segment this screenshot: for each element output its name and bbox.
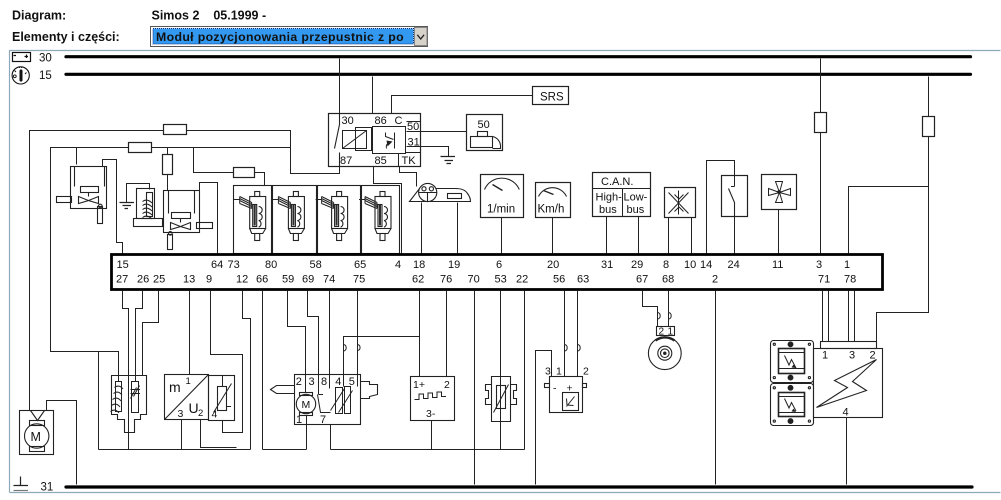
svg-text:6: 6 — [496, 259, 502, 271]
wire AC box to ECU pin 8 — [668, 218, 670, 254]
air conditioning switch box — [665, 188, 696, 218]
engine speed sender G28 connector — [657, 327, 675, 336]
wire CAN high to ECU pin 31 — [606, 217, 608, 254]
svg-text:15: 15 — [117, 259, 129, 271]
svg-text:1: 1 — [668, 327, 674, 338]
fuse on injector rail — [234, 168, 255, 178]
combo box dropdown button — [415, 28, 428, 46]
wire ECU pin 70 down — [474, 291, 476, 450]
svg-text:31: 31 — [41, 482, 54, 494]
positioner potentiometer 1 — [331, 388, 345, 414]
throttle positioner motor circle — [419, 183, 438, 202]
wire ECU pin 2 to ground bus — [715, 291, 717, 485]
wire bus15 through fuse down right side to ignition module — [877, 77, 929, 343]
injector frame 2 — [273, 186, 317, 254]
wire AC box to ECU pin 10 — [691, 218, 693, 254]
ground symbol 31 bottom left — [14, 477, 29, 491]
svg-text:1: 1 — [186, 376, 191, 387]
ground rail right section with drop to bus 31 — [331, 450, 475, 485]
wire ECU pin 25 to lambda sensor right — [143, 291, 159, 376]
wire relay pin TK to throttle positioner — [400, 167, 417, 187]
ground rail under coolant sensor — [475, 449, 525, 451]
wire CAN low to ECU pin 29 — [638, 217, 640, 254]
svg-text:2: 2 — [870, 350, 876, 362]
fuse on pump feed — [164, 125, 187, 135]
bus 15 — [66, 73, 971, 76]
riser rail to positioner motor pin 1 — [306, 417, 308, 450]
combo box selection highlight — [153, 29, 414, 45]
ECU engine control module connector box — [112, 255, 883, 290]
wire speedometer to ECU pin 20 — [552, 218, 554, 254]
svg-text:1: 1 — [844, 259, 850, 271]
svg-text:TK: TK — [402, 155, 417, 167]
svg-text:-: - — [553, 383, 557, 395]
wire bus30 down to relay pin 30 — [339, 59, 341, 114]
svg-text:19: 19 — [448, 259, 460, 271]
svg-text:68: 68 — [662, 274, 674, 286]
lambda sensor element — [131, 382, 141, 413]
svg-text:Diagram:: Diagram: — [12, 9, 66, 23]
svg-text:Km/h: Km/h — [538, 204, 565, 216]
svg-text:63: 63 — [577, 274, 589, 286]
wire ECU pin 53 through coolant sensor — [500, 291, 502, 450]
svg-text:75: 75 — [353, 274, 365, 286]
solenoid valve N80 (canister purge) — [57, 167, 107, 224]
svg-text:bus: bus — [627, 204, 645, 216]
positioner motor pin wire — [306, 416, 308, 450]
ground symbol at relay pin 31 — [441, 157, 456, 164]
svg-text:M: M — [31, 430, 41, 444]
fuse on valve supply — [129, 143, 152, 153]
svg-text:C: C — [395, 115, 403, 127]
snowflake symbol — [669, 191, 689, 215]
svg-text:3-: 3- — [426, 408, 436, 420]
wire bus15 down to relay pin 86 — [372, 77, 374, 114]
combo box frame — [151, 27, 428, 47]
wire tachometer to ECU pin 6 — [501, 218, 503, 254]
wire fuel pump to ground bus — [47, 401, 77, 485]
wire positioner pin 7 to ground rail — [330, 425, 332, 450]
fan box — [762, 175, 797, 210]
wire ECU pin 66 down to motor return rail — [262, 291, 264, 450]
svg-text:50: 50 — [407, 121, 419, 133]
air mass meter G70 box — [165, 375, 209, 420]
CAN bus box — [593, 173, 652, 217]
ignition coil pack 2 — [771, 384, 814, 426]
svg-text:2: 2 — [583, 366, 589, 378]
wire ECU pin 56 to sensor pin 1 — [564, 291, 566, 377]
wire ECU pin 22 down — [524, 291, 526, 450]
svg-text:22: 22 — [516, 274, 528, 286]
svg-text:12: 12 — [236, 274, 248, 286]
wire ECU pin 12 to ground rail — [243, 291, 251, 450]
svg-text:76: 76 — [440, 274, 452, 286]
tachometer gauge 1/min — [481, 175, 524, 218]
wire ECU pin 9 loop to intake temp sensor — [211, 291, 243, 433]
fan blades symbol — [769, 182, 791, 203]
wire bus30 to ECU pin 3 through fuse — [820, 59, 822, 254]
switch contact — [729, 187, 735, 217]
svg-text:1: 1 — [822, 350, 828, 362]
fuse on right-side bus15 feed — [923, 117, 935, 137]
svg-text:2: 2 — [659, 327, 665, 338]
starter box terminal 50 — [467, 115, 503, 151]
fuel pump motor box — [20, 411, 54, 455]
wire ECU pin 71 twin lead to ignition module — [823, 291, 829, 342]
lambda heater element — [111, 382, 124, 414]
starter motor icon — [471, 132, 501, 149]
svg-text:85: 85 — [375, 155, 387, 167]
wire throttle unit to ECU pin 19 — [457, 203, 459, 254]
svg-text:C.A.N.: C.A.N. — [601, 176, 633, 188]
connector break on positioner wire pin 4 — [344, 345, 347, 352]
lambda probe G39 body — [112, 376, 147, 433]
wire switch to ECU pin 24 — [734, 217, 736, 254]
throttle positioner module J338 box — [271, 375, 378, 425]
positioner motor — [296, 393, 315, 416]
svg-text:87: 87 — [340, 155, 352, 167]
svg-text:31: 31 — [408, 137, 420, 149]
svg-text:65: 65 — [354, 259, 366, 271]
wire fan to ECU pin 11 — [778, 210, 780, 254]
svg-text:69: 69 — [302, 274, 314, 286]
svg-text:73: 73 — [228, 259, 240, 271]
connector break on sensor wire 56 — [565, 345, 568, 352]
fuse above EGR valve — [163, 155, 173, 175]
wire relay pin 31 to ground — [421, 147, 449, 157]
battery symbol (terminal 30) — [13, 53, 31, 62]
wire ECU pin 27 to lambda heater — [123, 291, 129, 450]
svg-text:11: 11 — [772, 259, 783, 271]
wire injector rail to fuse — [194, 148, 265, 186]
wire ECU pin 14 up and over to switch — [707, 161, 735, 254]
svg-text:15: 15 — [39, 70, 52, 82]
wire sensor pin 3 to ground bus — [536, 351, 552, 485]
positioner idle switch — [318, 395, 331, 413]
svg-text:78: 78 — [844, 274, 856, 286]
wire pump feed rail from terminal 30 rail — [30, 131, 340, 411]
relay J271 box — [329, 114, 421, 167]
svg-text:27: 27 — [116, 274, 128, 286]
svg-text:13: 13 — [183, 274, 195, 286]
svg-text:1/min: 1/min — [487, 204, 515, 216]
svg-text:14: 14 — [700, 259, 712, 271]
svg-text:2: 2 — [198, 408, 203, 419]
wire ECU pin 63 to sensor pin 2 — [577, 291, 579, 377]
wire to ECU pin 64 — [200, 183, 218, 254]
svg-text:2: 2 — [712, 274, 718, 286]
throttle valve control unit body — [410, 189, 471, 202]
wire speed sender pin 3- to ground rail — [431, 421, 433, 450]
relay transistor element — [373, 127, 406, 154]
svg-text:SRS: SRS — [540, 92, 564, 104]
svg-text:8: 8 — [321, 376, 327, 388]
injector N3X — [316, 192, 348, 241]
lightning bolt symbol — [817, 360, 877, 408]
wire ECU pin 59 to positioner pin 2 — [288, 291, 306, 393]
wire relay pin 85 to ECU pin 4 — [374, 167, 402, 254]
injector N3X — [359, 192, 391, 241]
wire ECU pin 78 twin lead to ignition module — [849, 291, 855, 342]
svg-text:Low-: Low- — [624, 192, 648, 204]
injector frame 1 — [234, 186, 272, 254]
injector frame 4 — [362, 186, 400, 254]
svg-text:80: 80 — [265, 259, 277, 271]
svg-text:50: 50 — [478, 119, 490, 131]
positioner potentiometer 2 — [339, 387, 353, 414]
connector break on sensor wire 63 — [578, 345, 581, 352]
svg-text:66: 66 — [256, 274, 268, 286]
svg-text:86: 86 — [375, 115, 387, 127]
wire air mass meter pin 2 to ground rail — [201, 420, 237, 448]
svg-text:+: + — [567, 383, 573, 395]
svg-text:74: 74 — [323, 274, 335, 286]
wire ignition module pin 4 to ground bus — [846, 418, 848, 485]
intake air temperature sensor attachment — [209, 376, 235, 421]
svg-text:3: 3 — [849, 350, 855, 362]
speedometer gauge Km/h — [536, 183, 571, 218]
switch box — [722, 176, 748, 217]
engine speed sender box — [411, 377, 455, 421]
wire ECU pin 75 to positioner pin 5 — [357, 291, 359, 387]
svg-text:M: M — [302, 399, 311, 411]
svg-text:4: 4 — [212, 409, 218, 421]
wire ECU pin 67 to sender connector pin 2 — [643, 291, 658, 327]
svg-text:bus: bus — [599, 204, 617, 216]
wire relay pin 50 to starter box — [421, 131, 467, 133]
svg-text:58: 58 — [310, 259, 322, 271]
svg-text:4: 4 — [335, 376, 341, 388]
wire valve supply rail — [51, 148, 291, 450]
wire branch to ECU pin 1 — [849, 187, 929, 254]
svg-text:High-: High- — [596, 192, 623, 204]
injector N3X — [234, 192, 266, 241]
wire ECU pin 74 to positioner pin 8 — [329, 291, 331, 389]
connector break on positioner wire pin 5 — [358, 345, 361, 351]
svg-text:24: 24 — [728, 259, 740, 271]
ignition switch symbol (terminal 15) — [12, 67, 29, 85]
svg-text:29: 29 — [631, 259, 643, 271]
svg-text:31: 31 — [601, 259, 613, 271]
svg-text:1: 1 — [556, 366, 562, 378]
svg-text:8: 8 — [663, 259, 669, 271]
svg-text:70: 70 — [468, 274, 480, 286]
svg-text:64: 64 — [211, 259, 223, 271]
svg-text:26: 26 — [137, 274, 149, 286]
svg-text:Elementy i części:: Elementy i części: — [12, 30, 120, 44]
svg-text:71: 71 — [818, 274, 830, 286]
ground symbol left of solenoid coil — [120, 203, 135, 209]
wire ground to solenoid coil top — [127, 184, 150, 203]
svg-text:Moduł pozycjonowania przepustn: Moduł pozycjonowania przepustnic z po — [156, 30, 404, 44]
svg-text:m: m — [169, 379, 181, 395]
relay coil element — [343, 128, 372, 151]
svg-text:18: 18 — [413, 259, 425, 271]
wire ECU pin 69 to positioner pin 3 — [308, 291, 319, 395]
wire ECU pin 62 to speed sender plus branch to positioner pin 4 — [344, 291, 420, 387]
svg-text:4: 4 — [843, 407, 849, 419]
relay switch contact 30-87 — [335, 114, 340, 167]
connector break on sender wire 68 — [669, 313, 672, 320]
wire ECU pin 13 to air mass meter pin 1 — [189, 291, 191, 375]
svg-text:20: 20 — [547, 259, 559, 271]
engine speed sender G28 round body — [648, 337, 681, 370]
wire EVAP valve feed — [76, 148, 78, 165]
connector break on sender wire 67 — [658, 313, 661, 320]
svg-text:62: 62 — [412, 274, 424, 286]
ignition module power output stage box — [814, 349, 883, 418]
injector N3X — [272, 192, 304, 241]
svg-text:7: 7 — [320, 414, 326, 426]
svg-text:30: 30 — [342, 115, 354, 127]
svg-text:53: 53 — [495, 274, 507, 286]
coolant temperature sensor G62 — [486, 377, 517, 422]
ground rail left section — [99, 449, 251, 451]
ground rail centre section — [263, 449, 307, 451]
svg-text:3: 3 — [545, 366, 551, 378]
svg-text:3: 3 — [816, 259, 822, 271]
sensor with pins 3 1 2 box — [545, 377, 587, 413]
wire relay pin C up and right to SRS — [392, 96, 533, 114]
svg-text:2: 2 — [296, 376, 302, 388]
svg-text:3: 3 — [309, 376, 315, 388]
svg-text:67: 67 — [636, 274, 648, 286]
svg-text:4: 4 — [395, 259, 401, 271]
svg-text:1+: 1+ — [413, 379, 425, 391]
injector frame 3 — [318, 186, 361, 254]
solenoid coil component (relay winding) — [134, 189, 163, 227]
svg-text:10: 10 — [684, 259, 696, 271]
svg-text:9: 9 — [206, 274, 212, 286]
svg-text:30: 30 — [39, 53, 52, 65]
bus 31 ground line — [66, 485, 972, 488]
svg-text:56: 56 — [553, 274, 565, 286]
svg-text:2: 2 — [444, 379, 450, 391]
svg-text:3: 3 — [178, 408, 184, 420]
ignition module top pad — [821, 342, 877, 349]
svg-text:59: 59 — [282, 274, 294, 286]
svg-text:Simos 2 05.1999 -: Simos 2 05.1999 - — [152, 9, 267, 23]
ignition coil pack 1 — [771, 341, 814, 383]
wire ECU pin 68 to sender connector pin 1 — [668, 291, 670, 327]
wire ECU pin 76 to speed sender pin 2 — [446, 291, 448, 377]
svg-text:25: 25 — [153, 274, 165, 286]
wire ECU pin 26 to lambda sensor left — [136, 291, 143, 382]
fuse on ECU pin 3 feed — [815, 113, 827, 133]
bus 30 — [66, 55, 971, 58]
solenoid valve N18 (EGR) — [164, 191, 213, 250]
wire air mass meter pin 3 to ground rail — [181, 420, 183, 450]
wire EVAP valve to ECU pin 15 — [103, 160, 123, 254]
wire EGR valve feed through fuse — [167, 148, 169, 191]
wire throttle unit to ECU pin 18 — [421, 203, 423, 254]
SRS box — [533, 87, 569, 105]
